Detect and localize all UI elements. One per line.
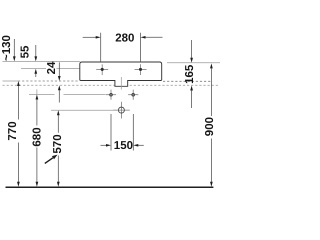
dimension 900 [210,63,213,68]
svg-text:150: 150 [114,140,133,152]
floor line [6,186,214,188]
drain centerline [120,77,122,90]
svg-text:900: 900 [204,117,216,136]
supply extension line [29,94,106,96]
dimension ~130 [13,39,15,57]
slope arrow [45,158,53,164]
dimension 570 [57,110,60,115]
dimension 770 [17,81,20,86]
overflow ledge line [21,68,80,70]
rim extension line left [3,60,80,62]
svg-text:770: 770 [7,121,19,140]
rim extension line right [167,62,220,64]
svg-text:570: 570 [52,134,64,153]
dashed lower reference line [3,84,219,86]
fixing hole right [135,64,147,75]
drain connection [113,102,130,119]
svg-text:680: 680 [31,127,43,146]
supply connection left [106,90,116,100]
dimension 280 [83,33,163,62]
dimension 165 [191,40,193,58]
fixing hole left [96,64,108,75]
svg-text:280: 280 [115,33,134,45]
svg-text:165: 165 [184,64,196,84]
drain extension line [51,109,113,111]
supply connection right [128,90,138,100]
dashed basin underside line [3,80,19,82]
dimension 680 [36,89,38,94]
svg-text:55: 55 [20,45,32,58]
svg-text:24: 24 [46,61,58,74]
svg-text:~130: ~130 [1,35,13,61]
dimension 55 [35,45,37,57]
dimension 24 [58,62,60,76]
basin body [80,62,162,86]
dimension 150 [101,114,144,151]
